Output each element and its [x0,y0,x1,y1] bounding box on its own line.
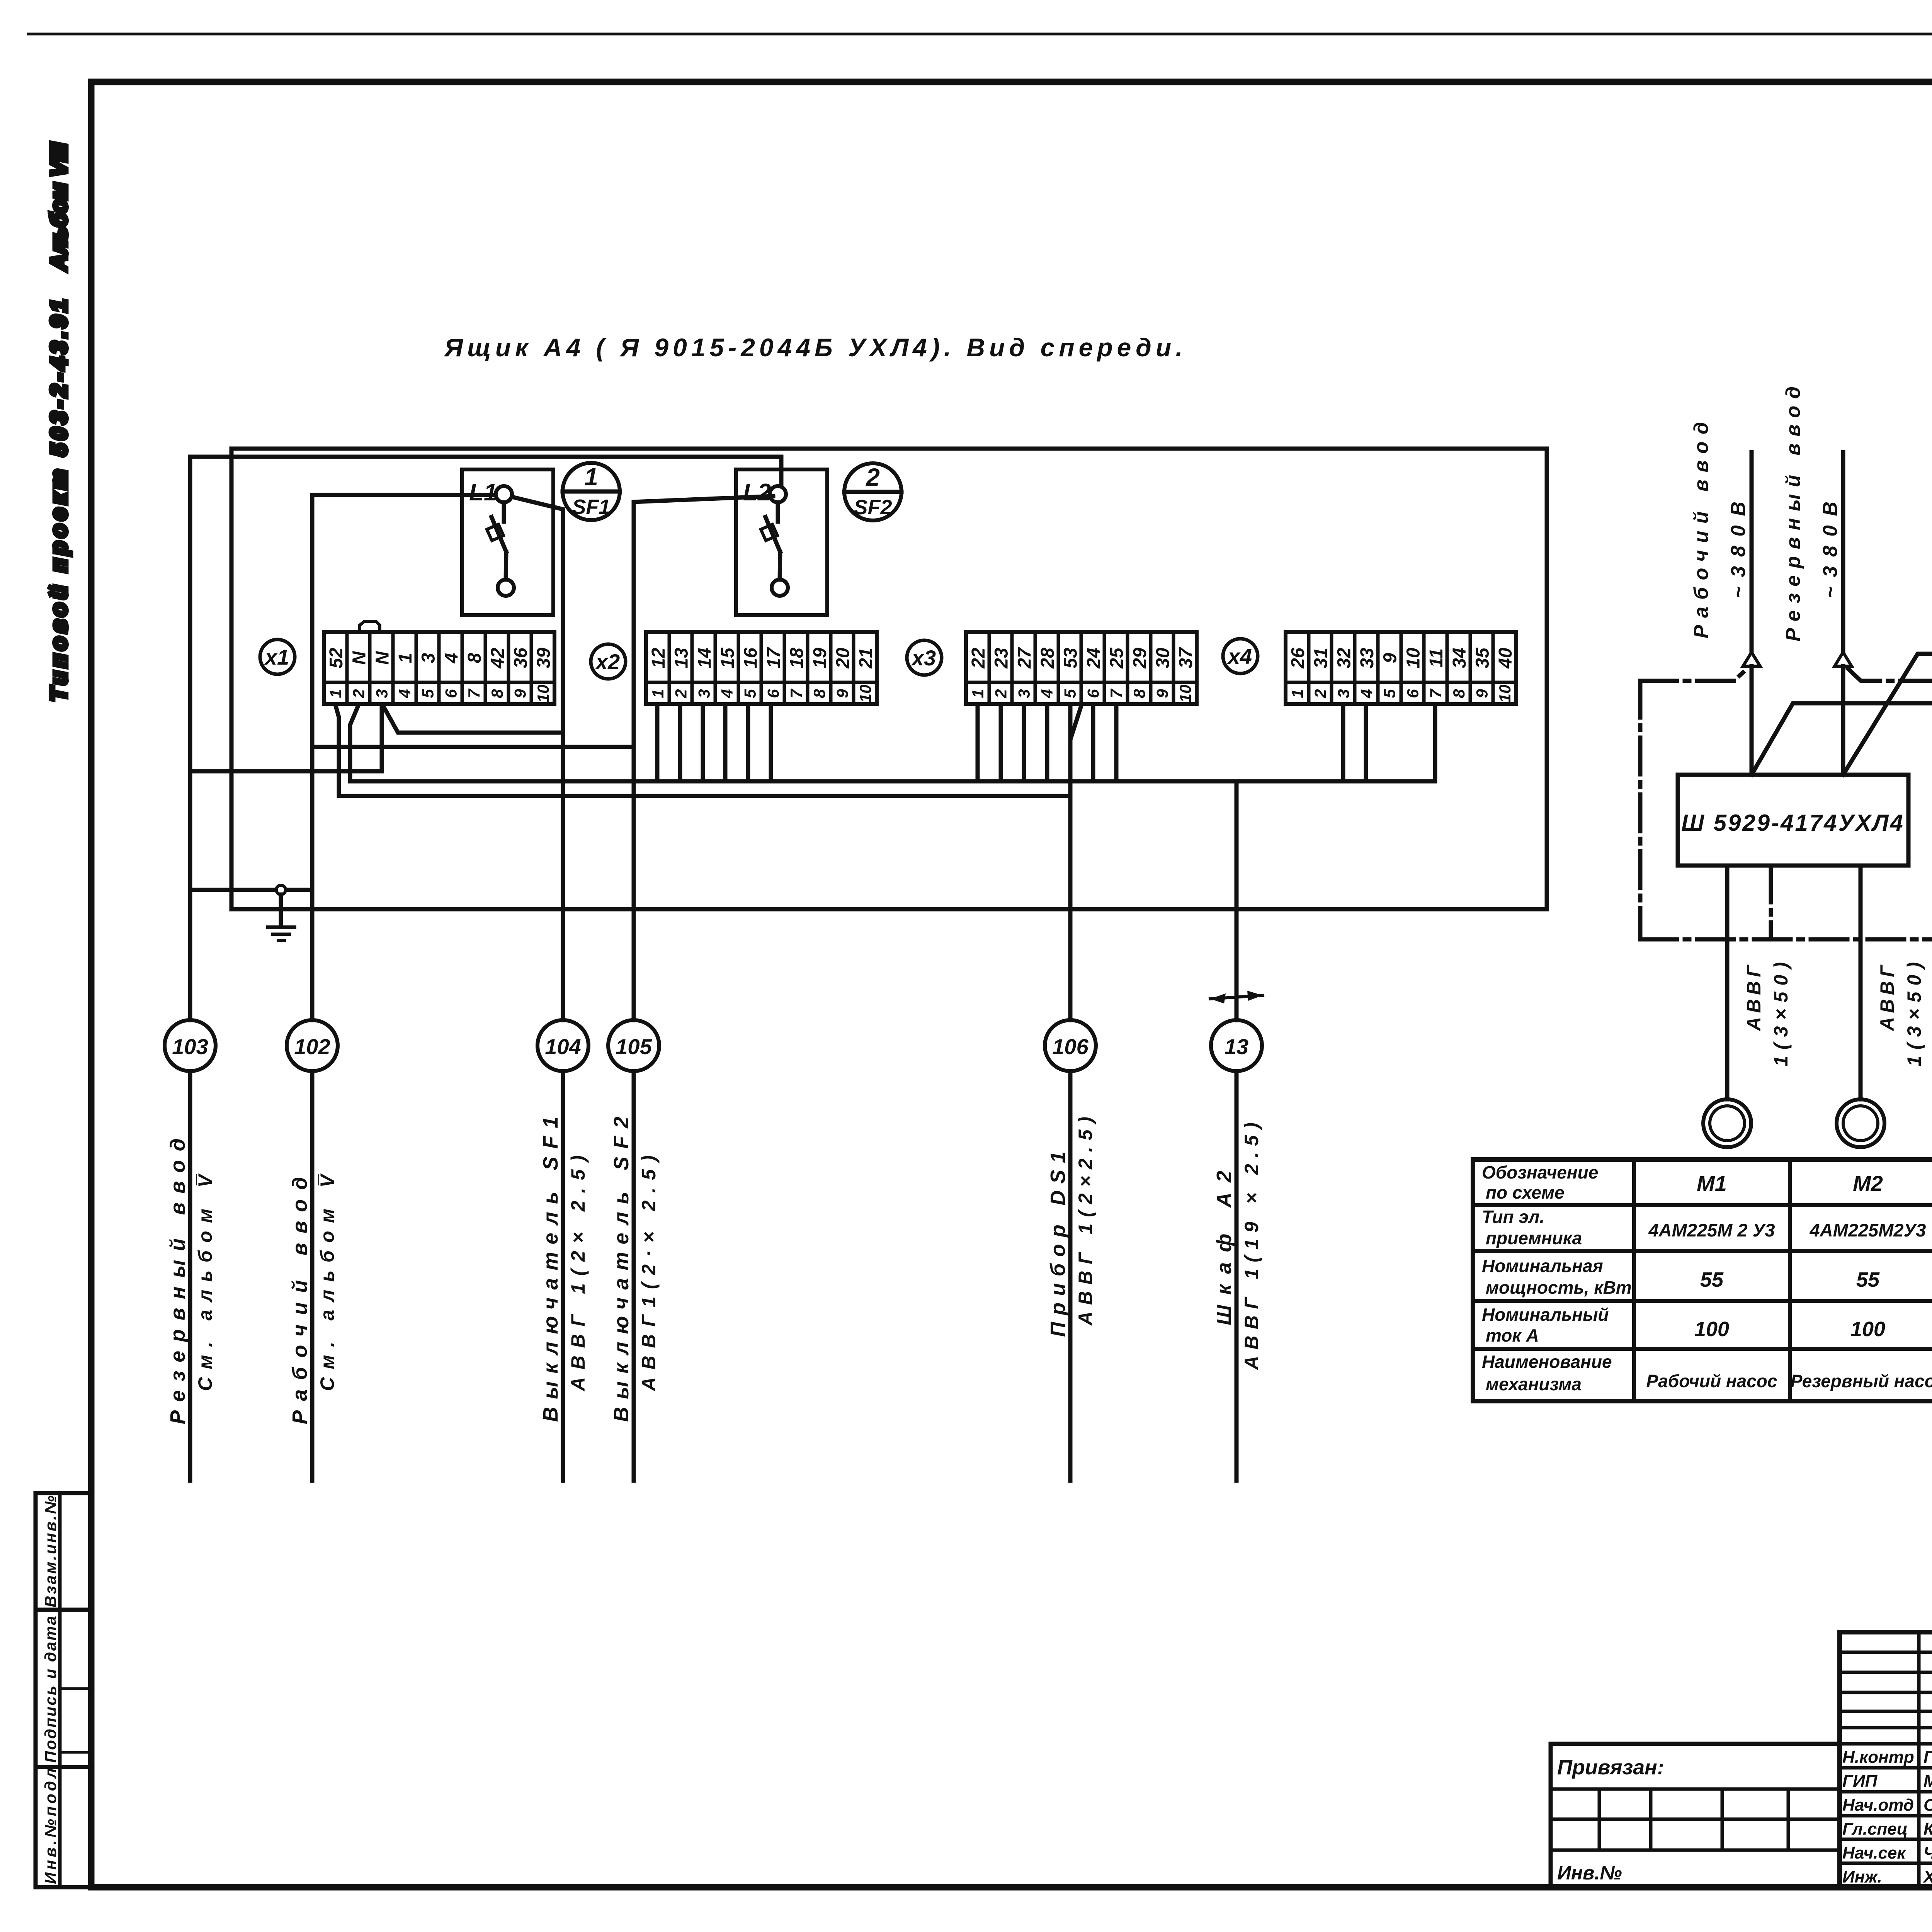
svg-text:ГИП: ГИП [1842,1772,1878,1791]
cable tail of 102 [310,1071,315,1481]
svg-text:9: 9 [1473,689,1491,698]
wire: L2 output diagonal down to 105 [634,496,773,1020]
wire: working input riser (net 102) [310,495,315,1020]
wire X3.5 down to 106 [1068,705,1073,1020]
svg-text:4: 4 [1038,689,1056,698]
terminal strip X1 [324,632,554,704]
svg-text:55: 55 [1856,1268,1880,1291]
svg-text:АВВГ1(2·× 2.5): АВВГ1(2·× 2.5) [638,1155,660,1392]
svg-text:31: 31 [1311,648,1332,668]
terminal strip X4 [1286,632,1516,704]
svg-text:1: 1 [1288,689,1306,698]
svg-text:6: 6 [1403,689,1422,698]
svg-text:13: 13 [1225,1034,1248,1059]
svg-text:8: 8 [1450,689,1468,698]
wire X3.3 [1022,705,1026,781]
svg-text:32: 32 [1334,648,1354,668]
svg-text:9: 9 [511,689,529,698]
svg-text:Номинальная: Номинальная [1482,1256,1603,1276]
svg-text:Ящик А4 ( Я 9015-2044Б УХЛ4: Ящик А4 ( Я 9015-2044Б УХЛ4). Вид сперед… [444,333,1187,362]
labels of 104 [539,1117,589,1422]
wire X4.3 [1341,705,1345,781]
svg-text:6: 6 [1084,689,1102,698]
svg-text:x2: x2 [595,650,620,674]
cabinet boundary chain line left [1640,669,1747,939]
svg-text:4АМ225М 2 У3: 4АМ225М 2 У3 [1648,1220,1775,1240]
svg-text:Гецко: Гецко [1923,1748,1932,1767]
svg-text:11: 11 [1426,648,1447,668]
cabinet Ш 5929-4174УХЛ4 [1678,775,1908,866]
chain stub under Ш [1769,866,1773,939]
svg-text:М1: М1 [1697,1171,1727,1196]
svg-text:34: 34 [1449,648,1470,668]
svg-text:27: 27 [1014,647,1035,669]
svg-text:Рабочий ввод: Рабочий ввод [288,1177,311,1424]
svg-text:10: 10 [1403,648,1423,668]
bus B (103 phase link) [190,769,382,774]
designator circle x2 [591,644,626,679]
working input riser ~380V [1743,452,1760,775]
node circle 104 [537,1020,588,1071]
bus C (102 link to SF2) [312,745,634,749]
svg-text:26: 26 [1288,648,1308,669]
wire X3.4 [1045,705,1049,781]
wire X1.3 diagonal + bus A to SF1 output [383,705,563,733]
svg-text:106: 106 [1052,1034,1088,1059]
breaker designator 1/SF1 [563,463,620,520]
svg-text:1(3×50): 1(3×50) [1770,962,1792,1066]
svg-text:100: 100 [1850,1318,1885,1341]
wire X2.2 [678,705,682,781]
ground symbol [268,927,294,940]
svg-text:24: 24 [1083,648,1104,668]
svg-text:L2: L2 [743,479,771,506]
svg-text:25: 25 [1107,647,1127,669]
svg-text:Инв.№: Инв.№ [1557,1862,1622,1884]
svg-text:23: 23 [992,648,1012,669]
cable label M1 [1743,962,1792,1066]
svg-text:3: 3 [695,689,713,698]
svg-text:2: 2 [992,689,1010,698]
wire X1.1 down to bus G [335,705,339,796]
cable tail of 103 [188,1071,192,1481]
svg-text:N: N [372,651,393,665]
circuit breaker L1 [462,469,553,615]
svg-text:Ш 5929-4174УХЛ4: Ш 5929-4174УХЛ4 [1681,810,1905,836]
svg-text:Черепахина: Черепахина [1923,1844,1932,1862]
cable break arrows on net 13 [1210,991,1263,1003]
svg-text:53: 53 [1061,648,1081,668]
svg-text:104: 104 [545,1034,581,1059]
svg-text:10: 10 [856,685,874,703]
circuit breaker L2 [736,469,827,615]
cable tail of 105 [632,1071,636,1481]
wire: reserve input riser (net 103) [188,457,192,1020]
svg-text:22: 22 [968,648,989,669]
svg-text:Н.контр: Н.контр [1842,1748,1914,1767]
svg-text:по схеме: по схеме [1486,1182,1565,1202]
designator circle x3 [907,640,942,675]
cable label M2 [1876,962,1925,1066]
bus G (X1.1 to DS1 wire) [339,794,1070,798]
svg-text:АВВГ 1(19 × 2.5): АВВГ 1(19 × 2.5) [1241,1122,1262,1371]
svg-text:Номинальный: Номинальный [1482,1304,1609,1325]
svg-text:100: 100 [1694,1318,1729,1341]
svg-text:8: 8 [1130,689,1148,698]
svg-text:Резервный ввод: Резервный ввод [1782,386,1804,641]
wire X2.6 [769,705,773,781]
svg-text:М2: М2 [1853,1171,1883,1196]
svg-text:Хашибашева: Хашибашева [1922,1867,1932,1886]
svg-text:Шкаф А2: Шкаф А2 [1213,1171,1236,1325]
svg-text:40: 40 [1495,648,1516,669]
svg-text:SF1: SF1 [572,495,610,519]
svg-text:4: 4 [718,689,736,698]
svg-text:102: 102 [294,1034,330,1059]
svg-text:1(3×50): 1(3×50) [1903,962,1925,1066]
wire X2.5 [746,705,750,781]
svg-text:Инж.: Инж. [1842,1867,1882,1886]
wire X2.4 [723,705,728,781]
feeder: reserve input crossover to Я cabinet [1843,654,1932,775]
svg-text:20: 20 [833,648,853,669]
reserve input riser ~380V [1835,452,1852,775]
svg-text:7: 7 [1107,689,1125,698]
wire to Шкаф А2 (net 13) [1235,781,1239,1020]
svg-text:7: 7 [1427,689,1445,698]
svg-text:АВВГ 1(2×2.5): АВВГ 1(2×2.5) [1075,1117,1096,1326]
svg-text:8: 8 [488,689,506,698]
wire X4.4 [1364,705,1368,781]
svg-text:1: 1 [969,689,987,698]
svg-text:4: 4 [1357,689,1376,698]
svg-text:9: 9 [1153,689,1171,698]
svg-text:Привязан:: Привязан: [1557,1756,1664,1779]
svg-text:9: 9 [833,689,851,698]
feeder: working input to АП50Б switch [1752,703,1932,789]
svg-text:Резервный ввод: Резервный ввод [166,1138,189,1424]
svg-text:4: 4 [441,653,462,664]
svg-text:Подпись и дата: Подпись и дата [41,1616,60,1763]
node circle 105 [608,1020,659,1071]
svg-text:21: 21 [856,648,876,668]
svg-text:14: 14 [694,648,715,668]
bus F (common neutral bus) [350,779,1435,784]
svg-text:Альбом VIII: Альбом VIII [46,142,71,271]
svg-text:17: 17 [764,647,784,668]
svg-text:x1: x1 [264,645,289,669]
svg-text:Взам.инв.№: Взам.инв.№ [41,1495,60,1607]
svg-text:29: 29 [1130,648,1150,669]
cable circle M1 [1703,1099,1751,1147]
svg-text:Типовой проект 503-2-43.91: Типовой проект 503-2-43.91 [46,299,71,701]
svg-text:55: 55 [1700,1268,1724,1291]
svg-text:Рабочий насос: Рабочий насос [1646,1371,1777,1391]
svg-text:См. альбом V̅: См. альбом V̅ [316,1173,338,1391]
svg-text:Климов: Климов [1923,1820,1932,1838]
wire X3.7 [1114,705,1119,781]
svg-text:Меленчук: Меленчук [1923,1772,1932,1791]
wire X3.6 jumper diagonal [1071,705,1082,737]
cabinet boundary chain line right of arrows [1848,669,1932,939]
wire: 102 bus to breaker L1 [312,493,496,497]
svg-text:2: 2 [1311,689,1330,698]
svg-text:Нач.отд: Нач.отд [1842,1796,1914,1815]
svg-text:52: 52 [326,648,347,668]
svg-text:АВВГ 1(2× 2.5): АВВГ 1(2× 2.5) [567,1155,589,1392]
svg-text:7: 7 [787,689,805,698]
svg-text:x4: x4 [1227,644,1252,668]
terminal strip X2 [646,632,877,704]
cable circle M2 [1837,1099,1884,1147]
labels of 102 [288,1173,338,1424]
svg-text:6: 6 [764,689,782,698]
wire: L1 output diagonal down to 104 [512,497,563,1020]
svg-text:3: 3 [1334,689,1352,698]
svg-text:5: 5 [1381,689,1399,698]
drawing title [444,333,1187,362]
svg-text:2: 2 [672,689,690,698]
svg-text:N: N [349,651,370,665]
reserve input labels [1782,386,1842,641]
svg-text:1: 1 [584,463,598,491]
svg-text:механизма: механизма [1486,1374,1582,1394]
svg-text:10: 10 [1496,685,1514,703]
svg-text:1: 1 [649,689,667,698]
page top edge line [28,33,1932,36]
svg-text:37: 37 [1176,647,1196,668]
svg-text:SF2: SF2 [854,496,892,519]
svg-text:приемника: приемника [1486,1228,1582,1248]
svg-text:Выключатель SF2: Выключатель SF2 [610,1117,633,1422]
svg-text:10: 10 [1176,685,1194,703]
cable tail of 104 [561,1071,565,1481]
labels of 105 [610,1117,660,1422]
svg-text:1: 1 [327,689,345,698]
svg-text:8: 8 [464,653,485,663]
svg-text:Прибор DS1: Прибор DS1 [1046,1151,1070,1337]
svg-text:Гл.спец: Гл.спец [1842,1820,1908,1838]
svg-text:6: 6 [442,689,460,698]
PE bus (102/103 ground link) [190,888,312,892]
svg-text:Тип эл.: Тип эл. [1482,1207,1544,1227]
svg-text:Инв.№подл: Инв.№подл [41,1768,60,1884]
svg-text:12: 12 [648,648,669,668]
svg-text:19: 19 [810,648,830,668]
wire X1.3 down to bus B [380,705,384,771]
left attribute table [36,1493,91,1887]
svg-text:Рабочий ввод: Рабочий ввод [1690,422,1713,638]
cable tail of 13 [1235,1071,1239,1481]
svg-text:33: 33 [1357,648,1378,668]
svg-text:2: 2 [350,689,368,698]
svg-text:L1: L1 [469,479,497,506]
svg-text:5: 5 [419,689,437,698]
labels of 103 [166,1138,216,1424]
enclosure box of Ящик А4 [231,449,1547,909]
svg-text:16: 16 [741,648,761,668]
svg-text:АВВГ: АВВГ [1743,964,1765,1032]
terminal strip X3 [966,632,1197,704]
node circle 13 [1211,1020,1262,1071]
svg-text:105: 105 [616,1034,652,1059]
labels of 13 [1213,1122,1262,1371]
working input labels [1690,422,1750,638]
svg-text:x3: x3 [911,646,936,670]
wire X4.7 [1433,705,1437,781]
vertical sheet title [46,142,71,701]
svg-text:15: 15 [718,647,738,668]
svg-text:13: 13 [672,648,692,668]
svg-text:35: 35 [1472,647,1493,668]
output stem M2 [1859,866,1863,1099]
svg-text:5: 5 [741,689,759,698]
wire X2.3 [701,705,705,781]
wire X1.2 down to bus F [350,705,359,781]
svg-text:1: 1 [395,653,416,663]
node circle 106 [1045,1020,1096,1071]
svg-text:36: 36 [510,648,531,668]
svg-text:103: 103 [172,1034,208,1059]
svg-text:10: 10 [534,685,552,703]
designator circle x4 [1223,639,1258,673]
svg-text:ток А: ток А [1486,1325,1539,1345]
wire X3.2 [999,705,1003,781]
svg-text:Наименование: Наименование [1482,1352,1612,1372]
svg-text:30: 30 [1153,648,1173,668]
svg-text:Осовский: Осовский [1923,1796,1932,1815]
svg-text:Обозначение: Обозначение [1482,1162,1598,1182]
svg-text:Нач.сек: Нач.сек [1842,1844,1906,1862]
svg-text:28: 28 [1037,648,1058,669]
svg-text:АВВГ: АВВГ [1876,964,1898,1032]
designator circle x1 [260,639,295,674]
wire: top bus from 103 to breaker L2 [190,457,781,486]
cabinet boundary chain bottom [1640,937,1932,942]
node circle 102 [287,1020,338,1071]
svg-text:8: 8 [810,689,828,698]
breaker designator 2/SF2 [844,463,901,520]
ground node [276,885,286,927]
svg-text:5: 5 [1061,689,1079,698]
title block [1551,1632,1932,1887]
svg-text:42: 42 [488,648,508,669]
svg-text:мощность, кВт: мощность, кВт [1486,1277,1632,1298]
output stem M1 [1725,866,1730,1099]
svg-text:Выключатель SF1: Выключатель SF1 [539,1117,562,1422]
svg-text:4: 4 [396,689,414,698]
svg-text:~380В: ~380В [1819,502,1842,598]
svg-text:3: 3 [372,689,391,698]
svg-text:39: 39 [534,648,554,668]
motor data table [1473,1160,1932,1401]
svg-text:18: 18 [787,648,807,668]
svg-text:См. альбом V̅: См. альбом V̅ [194,1173,216,1391]
svg-text:3: 3 [418,653,439,663]
svg-text:~380В: ~380В [1727,502,1750,598]
svg-text:7: 7 [465,689,483,698]
cable tail of 106 [1068,1071,1073,1481]
svg-text:Резервный насос: Резервный насос [1791,1371,1932,1391]
labels of 106 [1046,1117,1096,1337]
wire X3.1 [976,705,980,781]
node circle 103 [165,1020,216,1071]
svg-text:4АМ225М2У3: 4АМ225М2У3 [1810,1220,1926,1240]
svg-text:9: 9 [1380,653,1401,663]
svg-text:2: 2 [866,463,880,491]
wire X3.6 [1091,705,1095,781]
wire X2.1 [655,705,660,781]
svg-text:3: 3 [1015,689,1033,698]
X1 jumper tab [360,621,380,632]
